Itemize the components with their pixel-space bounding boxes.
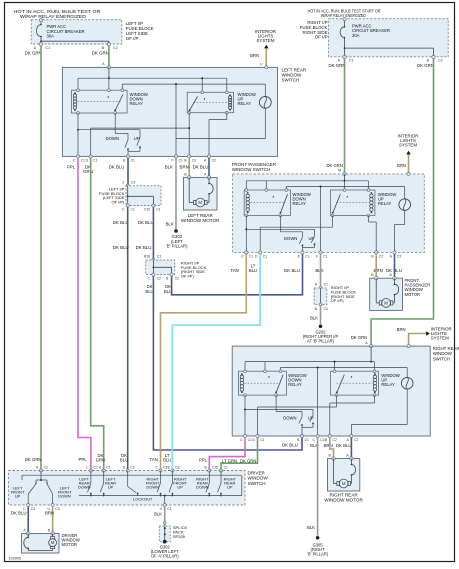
svg-text:J: J (122, 181, 124, 185)
svg-text:UP: UP (15, 494, 21, 499)
svg-text:C2: C2 (379, 255, 383, 259)
svg-text:DK GRN: DK GRN (327, 163, 343, 168)
svg-text:OF I/P): OF I/P) (181, 274, 195, 279)
svg-text:L: L (86, 466, 88, 470)
svg-text:C1: C1 (157, 255, 161, 259)
svg-text:DK BLU: DK BLU (284, 268, 300, 273)
svg-text:DK BLU: DK BLU (109, 165, 125, 170)
svg-text:'B' PILLAR): 'B' PILLAR) (166, 244, 188, 249)
svg-text:WINDOW SWITCH: WINDOW SWITCH (232, 167, 271, 172)
svg-text:C1: C1 (224, 466, 228, 470)
svg-text:DK GRN: DK GRN (92, 51, 109, 56)
svg-text:SYSTEM: SYSTEM (256, 38, 274, 43)
svg-text:DK BLU: DK BLU (113, 245, 129, 250)
svg-text:C1: C1 (131, 208, 135, 212)
svg-text:PPL: PPL (199, 457, 208, 462)
svg-text:LT GRN: LT GRN (222, 459, 237, 464)
svg-text:C2: C2 (212, 159, 216, 163)
svg-text:RELAY: RELAY (288, 382, 302, 387)
svg-text:OF I/P: OF I/P (126, 36, 139, 41)
svg-text:TAN: TAN (150, 457, 158, 462)
svg-text:SWITCH: SWITCH (248, 481, 266, 486)
svg-text:M: M (338, 169, 341, 173)
svg-text:C1: C1 (263, 255, 267, 259)
svg-text:M: M (198, 200, 202, 205)
svg-text:AT 'B' PILLAR): AT 'B' PILLAR) (307, 338, 335, 343)
svg-text:30A: 30A (352, 33, 360, 38)
svg-text:RELAY: RELAY (378, 201, 392, 206)
svg-text:C1: C1 (93, 159, 97, 163)
svg-text:DK BLU: DK BLU (136, 245, 152, 250)
svg-text:DK BLU: DK BLU (336, 443, 352, 448)
svg-text:DK GRN: DK GRN (328, 63, 345, 68)
svg-text:BLK: BLK (307, 525, 315, 530)
svg-text:BLK: BLK (315, 268, 323, 273)
svg-text:RELAY: RELAY (381, 382, 395, 387)
svg-text:W/RAP RELAY ENERGIZED: W/RAP RELAY ENERGIZED (321, 13, 366, 18)
svg-text:DK BLU: DK BLU (282, 442, 298, 447)
svg-text:DOWN: DOWN (284, 236, 297, 241)
svg-text:C2: C2 (397, 255, 401, 259)
svg-text:BRN: BRN (250, 53, 259, 58)
svg-text:RELAY: RELAY (130, 101, 144, 106)
svg-text:BRN: BRN (397, 327, 406, 332)
svg-text:BLK: BLK (165, 165, 173, 170)
svg-text:C1: C1 (179, 159, 183, 163)
svg-text:SYSTEM: SYSTEM (399, 142, 417, 147)
svg-text:OF 'A' PILLAR): OF 'A' PILLAR) (151, 554, 179, 559)
svg-text:PPL: PPL (67, 165, 76, 170)
svg-text:C1: C1 (131, 159, 135, 163)
svg-text:C1: C1 (260, 438, 264, 442)
svg-text:M: M (51, 540, 55, 545)
svg-text:C3: C3 (130, 466, 134, 470)
svg-text:WINDOW: WINDOW (248, 476, 269, 481)
svg-text:UP: UP (227, 485, 233, 490)
svg-text:C1: C1 (323, 255, 327, 259)
svg-text:SP205: SP205 (173, 534, 186, 539)
svg-text:DOWN: DOWN (58, 494, 71, 499)
svg-text:M: M (342, 481, 346, 486)
svg-text:SWITCH: SWITCH (282, 78, 300, 83)
svg-text:WINDOW MOTOR: WINDOW MOTOR (181, 218, 220, 223)
svg-text:C2: C2 (354, 438, 358, 442)
svg-text:DK GRN: DK GRN (351, 335, 367, 340)
svg-text:SWITCH: SWITCH (433, 356, 450, 361)
svg-text:BRN: BRN (45, 510, 54, 515)
svg-text:BLU: BLU (249, 268, 257, 273)
svg-text:30A: 30A (47, 34, 55, 39)
svg-text:M: M (384, 301, 388, 306)
svg-text:DOWN: DOWN (78, 485, 91, 490)
svg-text:BLK: BLK (166, 221, 174, 226)
svg-text:DK GRN: DK GRN (240, 459, 256, 464)
svg-text:C1: C1 (248, 438, 252, 442)
svg-text:W/RAP RELAY ENERGIZED: W/RAP RELAY ENERGIZED (20, 14, 87, 19)
svg-text:LOCKOUT: LOCKOUT (133, 497, 153, 502)
svg-text:C1: C1 (349, 59, 354, 63)
svg-text:C2: C2 (113, 46, 118, 50)
svg-text:BRN: BRN (324, 443, 333, 448)
svg-text:OF I/P: OF I/P (315, 35, 328, 40)
svg-text:UP: UP (108, 485, 114, 490)
svg-text:DOWN: DOWN (196, 485, 209, 490)
svg-text:C10: C10 (144, 208, 150, 212)
svg-text:DOWN: DOWN (283, 415, 296, 420)
svg-text:BRN: BRN (397, 163, 406, 168)
svg-text:RELAY: RELAY (293, 201, 307, 206)
svg-text:C3: C3 (175, 466, 179, 470)
svg-text:BLU: BLU (163, 458, 171, 463)
svg-text:OF I/P): OF I/P) (112, 200, 126, 205)
svg-text:C1: C1 (46, 46, 51, 50)
svg-text:DK GRN: DK GRN (417, 63, 434, 68)
svg-text:C2: C2 (192, 159, 196, 163)
svg-text:OF I/P): OF I/P) (331, 298, 345, 303)
svg-text:C2: C2 (175, 277, 179, 281)
svg-text:SYSTEM: SYSTEM (431, 336, 449, 341)
svg-text:F: F (260, 62, 262, 66)
svg-text:C1: C1 (305, 255, 309, 259)
svg-text:GRN: GRN (96, 458, 105, 463)
svg-text:C2: C2 (438, 59, 443, 63)
svg-text:C1: C1 (167, 507, 171, 511)
svg-text:BLK: BLK (154, 512, 162, 517)
svg-text:DOWN: DOWN (106, 136, 119, 141)
svg-text:BLK: BLK (310, 315, 318, 320)
svg-text:C2: C2 (44, 466, 48, 470)
svg-text:BLU: BLU (145, 289, 153, 294)
svg-text:102005: 102005 (9, 557, 22, 561)
svg-text:UP: UP (177, 485, 183, 490)
svg-text:C2: C2 (157, 277, 161, 281)
svg-text:C1: C1 (106, 466, 110, 470)
svg-text:C2: C2 (324, 307, 328, 311)
svg-text:C1: C1 (324, 283, 328, 287)
svg-text:DOWN: DOWN (146, 485, 159, 490)
svg-text:C1: C1 (305, 438, 309, 442)
svg-text:WINDOW MOTOR: WINDOW MOTOR (324, 498, 363, 503)
svg-text:C1: C1 (94, 466, 98, 470)
svg-text:C3: C3 (31, 507, 35, 511)
svg-text:DK BLU: DK BLU (11, 510, 27, 515)
svg-text:RELAY: RELAY (238, 101, 252, 106)
svg-text:DK BLU: DK BLU (193, 165, 209, 170)
svg-text:BLU: BLU (120, 458, 128, 463)
svg-text:TAN: TAN (230, 268, 238, 273)
svg-text:F: F (316, 255, 318, 259)
svg-text:BRN: BRN (374, 268, 383, 273)
svg-text:C2: C2 (332, 438, 336, 442)
svg-text:PPL: PPL (78, 457, 87, 462)
svg-text:DRIVER: DRIVER (248, 470, 266, 475)
svg-text:F: F (171, 159, 173, 163)
svg-text:DK GRN: DK GRN (25, 457, 42, 462)
svg-text:B10: B10 (144, 255, 150, 259)
svg-text:C1: C1 (249, 255, 253, 259)
svg-text:DK BLU: DK BLU (138, 220, 154, 225)
svg-text:'B' PILLAR): 'B' PILLAR) (307, 552, 329, 557)
svg-text:DK GRN: DK GRN (25, 51, 42, 56)
svg-text:MOTOR: MOTOR (405, 292, 421, 297)
svg-text:C3: C3 (131, 181, 135, 185)
svg-text:DK BLU: DK BLU (113, 220, 129, 225)
svg-text:C1: C1 (156, 208, 160, 212)
svg-text:C3: C3 (55, 507, 59, 511)
svg-text:C1: C1 (81, 159, 85, 163)
svg-text:MOTOR: MOTOR (62, 542, 78, 547)
svg-text:BRN: BRN (180, 165, 189, 170)
